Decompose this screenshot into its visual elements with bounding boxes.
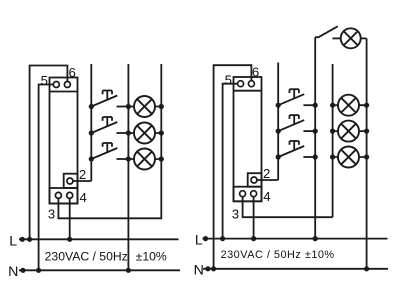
label N (right) xyxy=(194,263,204,279)
terminal 2 (U2) xyxy=(251,177,257,183)
relay U2 compartment for terminal 2 xyxy=(248,173,262,187)
push-button S6 xyxy=(276,141,316,160)
junction: lamp return column on N (right) xyxy=(364,266,369,271)
wire: U2 pin 6 to N xyxy=(214,65,252,269)
label 6 (U1) xyxy=(69,65,76,80)
wire: lamp E6 row xyxy=(333,130,367,132)
junction: E1 right xyxy=(159,104,164,109)
label L (left) xyxy=(9,234,17,250)
terminal 4 (U2) xyxy=(251,191,257,197)
junction: E2 left xyxy=(126,130,131,135)
junction: E6 left xyxy=(330,129,335,134)
junction: E7 left xyxy=(330,154,335,159)
svg-text:N: N xyxy=(8,264,18,280)
svg-text:4: 4 xyxy=(80,190,87,205)
wire: lamp E7 row xyxy=(333,156,367,158)
relay U2 compartment for terminals 3-4 xyxy=(234,187,262,202)
terminal 6 (U1) xyxy=(64,82,70,88)
lamp E7 xyxy=(338,147,359,168)
label N (left) xyxy=(8,264,18,280)
relay U1 body xyxy=(50,78,78,204)
terminal 2 (U1) xyxy=(67,178,73,184)
svg-text:5: 5 xyxy=(41,73,48,88)
lamp feed column (right) xyxy=(332,64,334,217)
label 2 (U2) xyxy=(263,166,270,181)
label L (right) xyxy=(195,233,203,249)
wire: U1 pin 6 to L xyxy=(30,66,68,240)
wire: U2 pin 3 to lamp feed column xyxy=(243,197,333,218)
push-button S3 xyxy=(89,143,129,162)
junction: E3 right xyxy=(159,156,164,161)
junction: E3 left xyxy=(126,156,131,161)
wire: U2 pin 4 to L xyxy=(253,197,255,239)
terminal 5 (U2) xyxy=(238,81,244,87)
junction: E6 right xyxy=(364,129,369,134)
relay U2 body xyxy=(234,77,262,201)
label 5 (U1) xyxy=(41,73,48,88)
lamp E3 xyxy=(134,149,155,170)
junction: S4 on live column xyxy=(313,103,318,108)
junction: lamp column on N (left) xyxy=(126,268,131,273)
label 4 (U1) xyxy=(80,190,87,205)
wire: S7 to lamp E4 xyxy=(332,37,340,39)
junction: E5 right xyxy=(364,103,369,108)
push-button S2 xyxy=(89,117,129,136)
svg-text:2: 2 xyxy=(79,167,86,182)
junction: E1 left xyxy=(126,104,131,109)
wire: U1 pin 2 to push-button column xyxy=(73,180,91,182)
terminal 3 (U2) xyxy=(240,191,246,197)
lamp E1 xyxy=(134,96,155,117)
svg-text:2: 2 xyxy=(263,166,270,181)
supply text (left) xyxy=(45,249,167,263)
relay U1 compartment for terminal 2 xyxy=(64,174,78,188)
svg-text:5: 5 xyxy=(225,73,232,88)
label 2 (U1) xyxy=(79,167,86,182)
switched-output column (left) xyxy=(160,64,162,159)
junction: N feed dot (left) xyxy=(20,268,25,273)
wire: lamp E3 row xyxy=(128,158,161,160)
push-button S4 xyxy=(276,89,316,108)
svg-text:230VAC / 50Hz: 230VAC / 50Hz xyxy=(45,249,128,263)
lamp E6 xyxy=(338,121,359,142)
svg-text:3: 3 xyxy=(232,207,239,222)
lamp return column (right) xyxy=(366,38,368,268)
supply text (right) xyxy=(221,249,335,261)
terminal 6 (U2) xyxy=(248,81,254,87)
wire: lamp E5 row xyxy=(333,104,367,106)
svg-text:L: L xyxy=(9,234,17,250)
junction: E5 left xyxy=(330,103,335,108)
label 3 (U2) xyxy=(232,207,239,222)
neutral lamp column (left) xyxy=(127,64,129,270)
junction: pin6 wire on N (right) xyxy=(211,266,216,271)
push-button column (node 2, left) xyxy=(90,64,92,181)
wire: lamp E2 row xyxy=(128,132,161,134)
svg-text:4: 4 xyxy=(263,189,270,204)
push-button S1 xyxy=(89,91,129,110)
junction: L feed dot (left) xyxy=(20,237,25,242)
label 6 (U2) xyxy=(252,65,259,80)
L rail (left circuit) xyxy=(19,238,179,240)
junction: pin6 wire on L (left) xyxy=(27,237,32,242)
relay U1 compartment for terminals 3-4 xyxy=(50,188,78,204)
svg-text:L: L xyxy=(195,233,203,249)
wire: lamp E4 to return column xyxy=(361,37,367,39)
wire: U2 pin 5 to L xyxy=(223,84,238,239)
svg-text:3: 3 xyxy=(48,206,55,221)
svg-text:6: 6 xyxy=(252,65,259,80)
wire: U1 pin 4 to L xyxy=(69,198,71,239)
junction: S6 on live column xyxy=(313,154,318,159)
terminal 5 (U1) xyxy=(53,82,59,88)
wire: U1 pin 5 to N xyxy=(39,85,54,271)
wire: U2 pin 2 to push-button column xyxy=(257,179,278,181)
N rail (right circuit) xyxy=(203,268,388,270)
lamp E5 xyxy=(338,95,359,116)
lamp E4 xyxy=(341,28,361,48)
junction: E7 right xyxy=(364,154,369,159)
junction: N feed dot (right) xyxy=(205,266,210,271)
label 4 (U2) xyxy=(263,189,270,204)
live column (right, to manual switch) xyxy=(314,37,316,238)
push-button column (node 2, right) xyxy=(277,63,279,181)
junction: pin4 wire on L (right) xyxy=(251,236,256,241)
wire: U1 pin 3 to lamp return column xyxy=(58,159,161,218)
L rail (right circuit) xyxy=(203,238,388,240)
junction: live column on L (right) xyxy=(313,236,318,241)
wire: lamp E1 row xyxy=(128,106,161,108)
junction: E2 right xyxy=(159,130,164,135)
svg-text:N: N xyxy=(194,263,204,279)
label 3 (U1) xyxy=(48,206,55,221)
svg-text:230VAC / 50Hz ±10%: 230VAC / 50Hz ±10% xyxy=(221,249,335,261)
label 5 (U2) xyxy=(225,73,232,88)
lamp E2 xyxy=(134,123,155,144)
junction: S5 on live column xyxy=(313,129,318,134)
terminal 3 (U1) xyxy=(55,192,61,198)
junction: L feed dot (right) xyxy=(203,236,208,241)
svg-text:6: 6 xyxy=(69,65,76,80)
junction: pin4 wire on L (left) xyxy=(67,237,72,242)
terminal 4 (U1) xyxy=(67,192,73,198)
N rail (left circuit) xyxy=(19,269,180,271)
manual switch S7 xyxy=(315,26,338,37)
junction: pin5 wire on L (right) xyxy=(220,236,225,241)
svg-text:±10%: ±10% xyxy=(136,249,167,263)
push-button S5 xyxy=(276,115,316,134)
junction: pin5 wire on N (left) xyxy=(36,268,41,273)
